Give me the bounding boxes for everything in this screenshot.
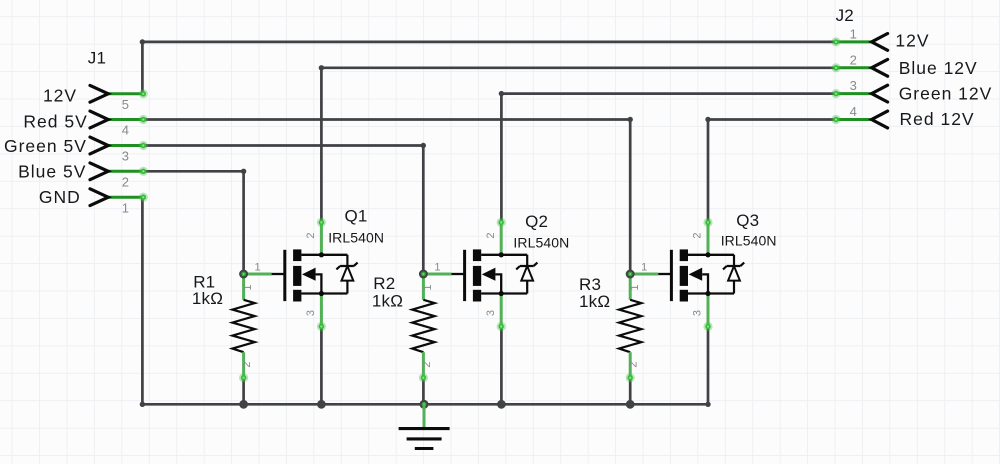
connector J2 pin 4 <box>831 111 887 128</box>
junction bus Q1 source <box>317 400 326 409</box>
wire Red 12V from Q3 drain to J2 pin4 <box>708 120 838 223</box>
junction Red 5V corner <box>628 117 633 122</box>
junction gate node R1/Q1 <box>239 270 248 279</box>
junction gate node R2/Q2 <box>419 270 428 279</box>
svg-text:Q1: Q1 <box>345 206 368 225</box>
svg-text:Red 5V: Red 5V <box>23 111 87 131</box>
connector J1 pin 4 <box>90 111 148 128</box>
svg-text:J2: J2 <box>836 6 854 25</box>
svg-text:R2: R2 <box>373 274 395 293</box>
svg-text:12V: 12V <box>895 30 929 50</box>
wire Green 12V from Q2 drain to J2 pin3 <box>501 94 837 223</box>
wire GND riser to Q3 source <box>707 327 710 405</box>
transistor Q2 IRL540N <box>423 218 537 331</box>
junction gate node R3/Q3 <box>626 270 635 279</box>
connector J1 pin 3 <box>90 137 148 154</box>
svg-text:3: 3 <box>122 149 129 164</box>
transistor Q3 IRL540N <box>630 218 744 331</box>
junction bus R3 <box>626 400 635 409</box>
wire 12V net from J1 pin5 up and across to J2 pin1 <box>142 42 837 94</box>
svg-text:4: 4 <box>122 123 129 138</box>
wire R3 bottom to bus <box>629 378 632 405</box>
wire R2 bottom to bus <box>422 378 425 405</box>
wire R1 bottom to bus <box>242 378 245 405</box>
svg-text:4: 4 <box>850 104 857 119</box>
wire Red 5V from J1 pin4 to R3 gate node <box>143 120 630 275</box>
connector J1 pin 5 <box>90 85 148 102</box>
svg-text:1kΩ: 1kΩ <box>372 292 403 311</box>
connector J2 pin 2 <box>831 59 887 76</box>
junction bus Q2 source <box>497 400 506 409</box>
wire Blue 12V from Q1 drain to J2 pin2 <box>321 68 837 223</box>
wire Q2 source to bus <box>500 327 503 405</box>
svg-text:3: 3 <box>850 78 857 93</box>
wire Q1 source to bus <box>320 327 323 405</box>
svg-text:IRL540N: IRL540N <box>721 233 777 249</box>
svg-text:Red 12V: Red 12V <box>900 109 975 129</box>
transistor Q1 IRL540N <box>244 218 358 331</box>
junction Green 12V corner <box>499 91 504 96</box>
svg-text:5: 5 <box>122 97 129 112</box>
resistor R1 <box>232 274 254 382</box>
svg-text:IRL540N: IRL540N <box>328 230 384 246</box>
resistor R3 <box>619 274 641 382</box>
connector J2 pin 1 <box>831 34 887 51</box>
svg-text:Green 5V: Green 5V <box>4 136 87 156</box>
svg-text:Blue 12V: Blue 12V <box>899 58 978 78</box>
wire Green 5V from J1 pin3 to R2 gate node <box>143 146 423 275</box>
svg-text:IRL540N: IRL540N <box>513 234 569 250</box>
svg-text:12V: 12V <box>43 85 77 105</box>
svg-text:2: 2 <box>850 52 857 67</box>
junction GND left corner <box>140 402 145 407</box>
wire GND from J1 pin1 down to bottom bus <box>141 197 145 404</box>
svg-text:Q2: Q2 <box>525 212 548 231</box>
junction Blue 12V corner <box>319 65 324 70</box>
svg-text:Q3: Q3 <box>736 211 759 230</box>
svg-text:J1: J1 <box>88 49 106 68</box>
resistor R2 <box>412 274 434 382</box>
junction Red 12V corner <box>705 117 710 122</box>
junction bus GND symbol <box>420 400 429 409</box>
connector J2 pin 3 <box>831 85 887 102</box>
svg-text:1: 1 <box>850 26 857 41</box>
connector J1 pin 2 <box>90 163 148 180</box>
svg-text:Green 12V: Green 12V <box>899 84 993 104</box>
junction Green 5V corner <box>421 143 426 148</box>
svg-text:1kΩ: 1kΩ <box>192 289 223 308</box>
connector J1 pin 1 <box>90 189 148 206</box>
junction bus R1 <box>239 400 248 409</box>
junction Blue 5V corner <box>241 169 246 174</box>
junction GND right corner <box>705 402 710 407</box>
svg-text:Blue 5V: Blue 5V <box>18 161 86 181</box>
ground symbol <box>399 404 450 448</box>
svg-text:GND: GND <box>39 187 81 207</box>
wire GND bottom bus <box>142 403 708 406</box>
svg-text:1kΩ: 1kΩ <box>579 292 610 311</box>
svg-text:2: 2 <box>122 174 129 189</box>
svg-text:1: 1 <box>122 200 129 215</box>
wire Blue 5V from J1 pin2 to R1 gate node <box>143 171 243 274</box>
junction 12V corner <box>140 39 145 44</box>
